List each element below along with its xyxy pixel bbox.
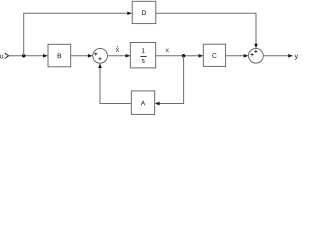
- node u (input label): [0, 55, 3, 59]
- label X: [165, 48, 168, 52]
- wire C to sum2: [226, 55, 244, 57]
- junction node after u: [22, 54, 26, 58]
- wire u to B: [9, 55, 44, 57]
- wire sum1 to integrator: [108, 55, 126, 57]
- wire D to sum2: [156, 13, 256, 44]
- input open arrow: [5, 53, 9, 58]
- wire junction up to D: [24, 13, 128, 56]
- summing junction sum2: [249, 48, 264, 63]
- wire junction X down to A: [159, 56, 183, 104]
- node y (output label): [295, 55, 298, 60]
- wire integrator to C: [156, 55, 199, 57]
- junction node X: [182, 54, 186, 58]
- integrator block 1/s: [130, 43, 155, 68]
- wire B to sum1: [71, 55, 88, 57]
- block C: [203, 44, 225, 66]
- wire sum2 to y: [263, 55, 288, 57]
- block B: [48, 44, 71, 67]
- wire A up to sum1: [100, 68, 131, 104]
- summing junction sum1: [93, 48, 108, 63]
- label xdot: [116, 46, 119, 52]
- block A: [131, 91, 154, 115]
- block D: [132, 1, 156, 23]
